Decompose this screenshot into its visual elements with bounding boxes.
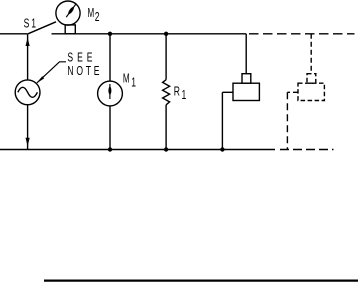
svg-text:R: R: [174, 85, 180, 99]
wire bottom bus solid segment: [0, 149, 275, 151]
wire future receptacle J2 drop (dashed): [310, 34, 312, 74]
switch S1 blade: [28, 22, 56, 34]
receptacle J1 body: [233, 83, 259, 100]
dimension arrowhead up: [26, 38, 30, 47]
wire top bus dashed segment: [249, 33, 355, 35]
wire R1 branch upper: [165, 34, 167, 80]
wire M1 branch lower: [109, 106, 111, 150]
meter M1 needle: [108, 84, 111, 99]
wire receptacle J1 tap horizontal: [222, 91, 233, 93]
node junction top at R1 branch: [164, 32, 168, 36]
wire top bus left segment: [0, 33, 28, 35]
svg-text:M: M: [123, 71, 130, 85]
AC source G1 circle: [15, 80, 40, 105]
dimension arrowhead down: [26, 138, 30, 146]
node junction top at M1 branch: [108, 32, 112, 36]
meter M1 circle: [98, 81, 123, 106]
wire receptacle J1 tap vertical: [221, 92, 223, 149]
border bottom rule: [44, 279, 358, 281]
svg-text:SEE: SEE: [67, 51, 96, 65]
future receptacle J2 body (dashed): [298, 83, 324, 100]
wire future receptacle J2 tap vertical (dashed): [286, 92, 288, 149]
meter M2 stand: [65, 25, 75, 34]
wire future receptacle J2 tap horizontal (dashed): [287, 91, 298, 93]
wire M1 branch upper: [109, 34, 111, 81]
svg-text:S1: S1: [24, 17, 38, 31]
future receptacle J2 notch (dashed): [307, 74, 316, 84]
svg-text:1: 1: [131, 76, 136, 90]
receptacle J1 notch: [242, 74, 251, 84]
svg-text:M: M: [88, 6, 95, 20]
svg-text:1: 1: [182, 88, 187, 102]
leader line SEE NOTE: [37, 62, 66, 83]
resistor R1: [163, 80, 170, 105]
svg-text:NOTE: NOTE: [67, 64, 102, 78]
wire R1 branch lower: [165, 105, 167, 150]
AC source sine wave: [18, 87, 38, 97]
node junction bottom at J1 tap: [220, 147, 224, 151]
wire receptacle J1 drop: [245, 34, 247, 74]
wire bottom bus dashed segment: [280, 149, 334, 151]
node junction bottom at R1 branch: [164, 147, 168, 151]
dimension arrow lower shaft: [27, 105, 29, 150]
dimension arrow upper shaft: [27, 34, 29, 80]
node junction bottom at M1 branch: [108, 147, 112, 151]
svg-text:2: 2: [95, 10, 100, 24]
wire top bus main segment: [52, 33, 247, 35]
meter M2 circle: [56, 1, 80, 25]
leader arrowhead: [36, 76, 44, 83]
meter M2 needle: [66, 4, 76, 18]
